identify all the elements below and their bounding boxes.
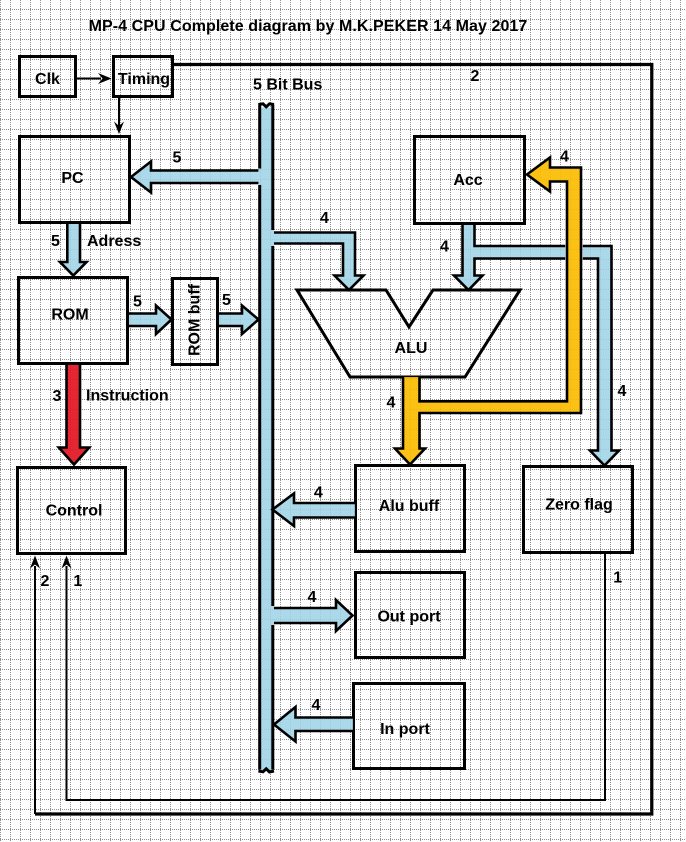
svg-text:4: 4 (320, 210, 329, 227)
svg-text:5: 5 (51, 233, 60, 250)
svg-text:4: 4 (440, 239, 449, 256)
svg-text:5 Bit Bus: 5 Bit Bus (253, 77, 322, 94)
svg-text:Instruction: Instruction (86, 388, 169, 405)
svg-text:5: 5 (133, 294, 142, 311)
svg-text:Zero flag: Zero flag (545, 497, 613, 514)
svg-text:Adress: Adress (87, 233, 141, 250)
svg-text:MP-4 CPU Complete diagram by: MP-4 CPU Complete diagram by M.K.PEKER 1… (89, 18, 528, 35)
svg-text:4: 4 (560, 149, 569, 166)
svg-text:4: 4 (618, 383, 627, 400)
svg-text:2: 2 (471, 68, 480, 85)
svg-text:5: 5 (222, 292, 231, 309)
svg-text:3: 3 (53, 388, 62, 405)
svg-text:Clk: Clk (35, 71, 60, 88)
svg-text:ROM: ROM (51, 307, 88, 324)
svg-text:PC: PC (61, 170, 84, 187)
svg-text:ROM buff: ROM buff (187, 283, 204, 356)
svg-text:Out port: Out port (377, 609, 441, 626)
svg-text:4: 4 (308, 589, 317, 606)
svg-text:5: 5 (173, 150, 182, 167)
svg-text:1: 1 (613, 570, 622, 587)
svg-text:In port: In port (380, 721, 430, 738)
svg-text:2: 2 (41, 573, 50, 590)
svg-text:4: 4 (312, 697, 321, 714)
svg-text:4: 4 (387, 395, 396, 412)
svg-text:4: 4 (314, 485, 323, 502)
svg-text:1: 1 (73, 573, 82, 590)
svg-text:Acc: Acc (453, 172, 482, 189)
svg-text:Timing: Timing (118, 71, 170, 88)
svg-text:ALU: ALU (395, 340, 428, 357)
svg-text:Control: Control (46, 503, 103, 520)
svg-text:Alu buff: Alu buff (379, 498, 440, 515)
